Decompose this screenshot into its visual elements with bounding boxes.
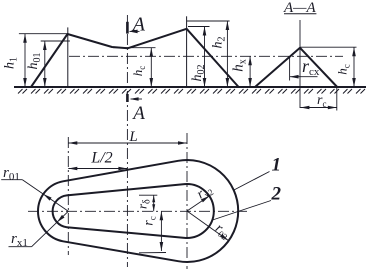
dimension delta	[153, 195, 155, 211]
ground line	[14, 86, 366, 88]
dimension L	[68, 142, 187, 144]
extension line hc middle	[113, 47, 156, 49]
svg-text:h2: h2	[211, 37, 228, 49]
svg-text:rc: rc	[317, 93, 326, 109]
svg-text:2: 2	[271, 184, 282, 205]
svg-text:hx: hx	[231, 59, 249, 72]
svg-text:h01: h01	[26, 53, 43, 70]
radius r02	[187, 211, 229, 241]
stake at first peak	[67, 27, 69, 87]
cut arrow bottom	[131, 98, 142, 100]
stake at second peak	[186, 16, 188, 87]
profile centerline	[69, 55, 343, 57]
cut arrow top	[130, 30, 140, 32]
ground hatching	[18, 89, 365, 94]
dimension h1	[24, 34, 26, 87]
reference line rc plan	[139, 252, 166, 254]
reference line delta	[139, 194, 157, 196]
snow profile surface	[31, 29, 239, 87]
svg-text:rc: rc	[142, 216, 158, 225]
dimension rc plan	[160, 211, 162, 251]
extension line rc section	[336, 88, 338, 111]
svg-text:r01: r01	[3, 165, 20, 183]
extension line h02	[188, 26, 210, 28]
extension line h01	[41, 40, 70, 42]
cut stroke top	[126, 22, 129, 34]
section A-A cone	[255, 48, 337, 87]
dimension hc middle	[150, 48, 152, 87]
dimension h2	[226, 21, 228, 87]
extension line h1 top	[19, 33, 68, 35]
part label 1	[233, 172, 270, 191]
outer contour 1	[38, 160, 238, 262]
dimension hx	[249, 56, 251, 87]
svg-text:A: A	[131, 103, 145, 124]
svg-text:1: 1	[272, 155, 282, 176]
svg-text:A: A	[131, 13, 146, 35]
svg-text:rδ: rδ	[135, 199, 153, 209]
cut plane line A-A	[126, 15, 128, 267]
dimension rcx	[290, 76, 318, 78]
axis right center	[186, 133, 188, 269]
svg-text:hc: hc	[130, 66, 147, 77]
dimension L/2	[68, 168, 127, 170]
svg-text:L/2: L/2	[90, 150, 112, 167]
axis left center	[67, 137, 69, 255]
svg-text:L: L	[128, 129, 137, 145]
dimension h02	[204, 27, 206, 88]
extension line h2 top	[187, 20, 230, 22]
part label 2	[213, 201, 272, 221]
extension line rcx	[289, 56, 291, 80]
svg-text:h1: h1	[3, 57, 20, 69]
svg-text:hc: hc	[335, 64, 352, 75]
section axis	[299, 20, 301, 108]
extension line hc section	[300, 46, 357, 48]
radius rx2	[187, 196, 209, 211]
dimension rc section	[300, 107, 336, 109]
inner contour 2	[53, 184, 214, 238]
cut stroke bottom	[126, 94, 129, 102]
plan centerline	[28, 210, 247, 212]
svg-text:h02: h02	[190, 65, 207, 82]
dimension hc section	[353, 47, 355, 87]
dimension h01	[44, 41, 46, 87]
